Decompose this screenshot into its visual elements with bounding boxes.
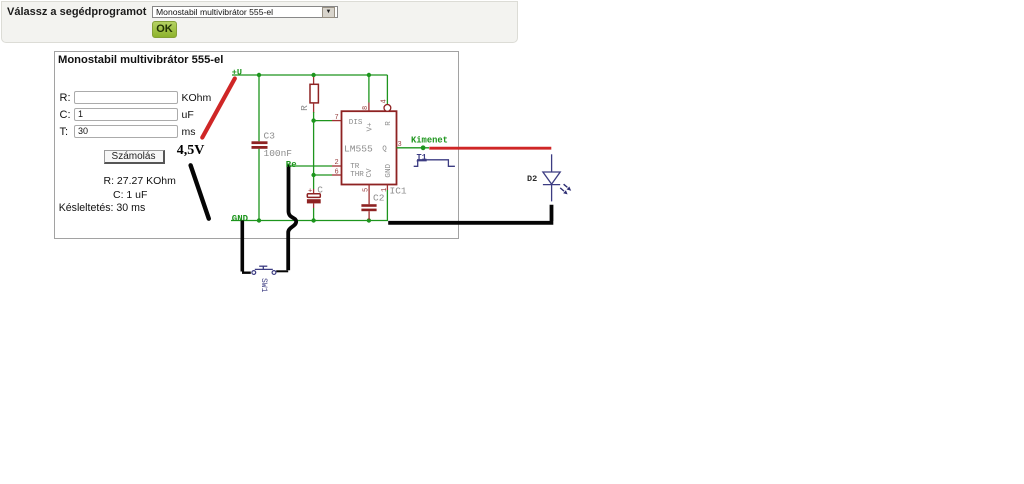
net label Kimenet <box>411 136 448 146</box>
label T1 <box>417 153 427 163</box>
label C <box>317 185 323 196</box>
label C2 <box>373 193 385 204</box>
battery label 4,5V <box>177 143 205 158</box>
wire pin6 <box>314 174 342 176</box>
node junction output <box>421 145 426 150</box>
black trigger lead with hop <box>288 165 296 271</box>
node junction gnd C3 <box>257 218 261 222</box>
svg-text:D2: D2 <box>527 174 537 184</box>
panel title <box>58 54 223 67</box>
net label GND <box>232 214 249 224</box>
label R <box>299 105 310 111</box>
wire pin4 <box>386 75 388 104</box>
wire pin7 <box>314 120 342 122</box>
svg-text:R: R <box>299 105 310 111</box>
net label +U <box>232 68 242 78</box>
pin name DIS <box>349 119 363 127</box>
pin name V+ rotated <box>367 122 375 132</box>
result R <box>104 176 176 187</box>
pin number 2 <box>335 159 339 167</box>
svg-text:6: 6 <box>335 169 339 177</box>
svg-text:Q: Q <box>382 145 387 153</box>
LED D2 <box>543 154 560 201</box>
wire R to node <box>313 112 315 121</box>
svg-text:C2: C2 <box>373 193 385 204</box>
svg-text:IC1: IC1 <box>390 186 407 197</box>
svg-text:2: 2 <box>335 159 339 167</box>
svg-text:Re: Re <box>286 160 297 170</box>
svg-text:8: 8 <box>362 106 370 110</box>
svg-text:CV: CV <box>366 168 374 178</box>
wire node7 to node6 <box>313 121 315 175</box>
pin number 3 <box>398 141 402 149</box>
pin number 5 rotated <box>362 188 370 192</box>
black gnd lead to switch <box>242 221 251 273</box>
wire C3 branch upper <box>258 75 260 141</box>
svg-text:Kimenet: Kimenet <box>411 136 448 146</box>
pin 1 stub <box>386 185 388 191</box>
svg-text:3: 3 <box>398 141 402 149</box>
trigger lead stub to switch <box>276 270 288 272</box>
svg-text:LM555: LM555 <box>344 144 373 155</box>
svg-text:C3: C3 <box>264 131 276 142</box>
svg-text:1: 1 <box>381 188 389 192</box>
svg-text:DIS: DIS <box>349 119 363 127</box>
node junction pin7 <box>311 118 315 122</box>
svg-text:100nF: 100nF <box>264 148 293 159</box>
svg-text:GND: GND <box>385 163 393 177</box>
input C value 1 <box>74 108 178 121</box>
input T value 30 <box>74 125 178 138</box>
op-amp U1 LM555 body <box>342 111 397 184</box>
pin number 1 rotated <box>381 188 389 192</box>
node junction top R <box>311 73 315 77</box>
svg-text:+: + <box>308 188 312 196</box>
label D2 <box>527 174 537 184</box>
wire pin3 output <box>397 147 430 149</box>
field label R <box>60 93 71 104</box>
OK button <box>152 21 177 38</box>
svg-text:C: C <box>317 185 323 196</box>
field label C <box>60 110 71 121</box>
switch SW1 <box>252 266 276 274</box>
pin name R rotated <box>385 121 393 126</box>
svg-text:4,5V: 4,5V <box>177 143 205 158</box>
unit uF <box>182 110 194 121</box>
capacitor C3 <box>252 141 268 149</box>
label C3 <box>264 131 276 142</box>
pin number 8 rotated <box>362 106 370 110</box>
capacitor C2 <box>361 185 376 220</box>
waveform T1 <box>414 160 455 167</box>
unit KOhm <box>182 93 212 104</box>
pin name GND rotated <box>385 163 393 177</box>
pin name TR <box>350 163 360 171</box>
battery positive lead (red) <box>202 79 235 138</box>
black wire LED cathode to gnd <box>388 205 553 223</box>
node junction pin6 <box>311 173 315 177</box>
svg-text:SW1: SW1 <box>259 278 268 293</box>
field label T <box>60 127 69 138</box>
node junction gnd C <box>311 218 315 222</box>
polarity plus <box>308 188 312 196</box>
pin 4 inversion circle <box>384 105 391 112</box>
capacitor C polarized <box>307 175 321 221</box>
svg-text:GND: GND <box>232 214 249 224</box>
select arrow button <box>322 7 335 18</box>
pin number 6 <box>335 169 339 177</box>
svg-text:THR: THR <box>350 171 364 179</box>
pin number 7 <box>335 114 339 122</box>
svg-text:7: 7 <box>335 114 339 122</box>
value LM555 <box>344 144 373 155</box>
pin name THR <box>350 171 364 179</box>
wire pin8 <box>368 75 370 111</box>
calculator panel <box>54 51 459 239</box>
Szamolas button <box>104 150 165 164</box>
output red wire to LED <box>429 147 551 150</box>
node junction top pin8 <box>367 73 371 77</box>
svg-text:V+: V+ <box>367 122 375 132</box>
wire GND rail <box>231 190 387 221</box>
result C <box>113 190 147 201</box>
pin number 4 rotated <box>380 99 388 103</box>
result delay <box>59 203 146 214</box>
svg-text:T1: T1 <box>417 153 427 163</box>
svg-text:5: 5 <box>362 188 370 192</box>
wire C3 branch lower <box>258 149 260 221</box>
wire top rail <box>232 74 387 76</box>
resistor R <box>310 77 318 113</box>
node junction gnd C2 <box>367 218 371 222</box>
wire pin2 <box>289 165 342 167</box>
pin name Q <box>382 145 387 153</box>
node junction top C3 <box>257 73 261 77</box>
battery negative lead (black) <box>191 165 209 218</box>
LED arrows <box>560 184 571 194</box>
svg-text:4: 4 <box>380 99 388 103</box>
label SW1 rotated <box>259 278 268 293</box>
label IC1 <box>390 186 407 197</box>
value 100nF <box>264 148 293 159</box>
net label Re <box>286 160 297 170</box>
toolbar label <box>7 6 146 18</box>
svg-text:R: R <box>385 121 393 126</box>
select dropdown <box>152 6 338 18</box>
top toolbar <box>1 1 518 43</box>
svg-text:+U: +U <box>232 68 242 78</box>
pin name CV rotated <box>366 168 374 178</box>
input R <box>74 91 178 104</box>
unit ms <box>182 127 196 138</box>
